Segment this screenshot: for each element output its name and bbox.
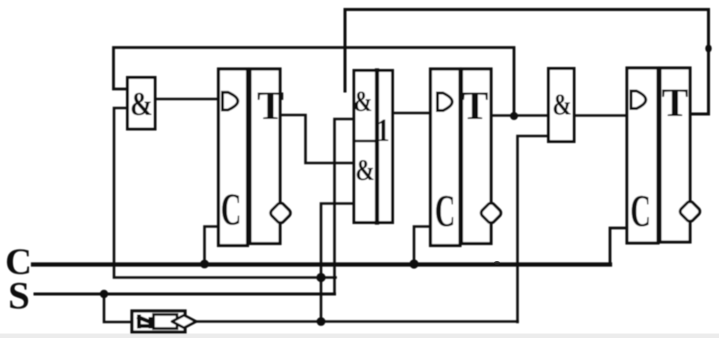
- D1 arrow diamond tip: [172, 315, 196, 328]
- D1 arrow body: [154, 315, 178, 329]
- svg-text:T: T: [662, 80, 689, 125]
- U2 output diamond: [480, 202, 503, 225]
- wire: T2 feedback line y=47 from x=514 to AND G1 input 1: [114, 48, 515, 117]
- node: small scan blob on C line: [494, 261, 500, 265]
- node: junction dot C line / FF2 clock: [409, 259, 418, 268]
- svg-text:T: T: [257, 83, 284, 128]
- D1 inner glyph: [139, 317, 151, 327]
- wire: S branch down to delay element input: [104, 294, 131, 322]
- U3 dynamic clock wedge: [631, 91, 646, 109]
- svg-text:1: 1: [376, 112, 389, 148]
- U1 dynamic clock wedge: [223, 92, 238, 110]
- scan artifact band at bottom: [0, 334, 719, 339]
- flip-flop U3 right section: [660, 68, 690, 242]
- node: junction dot on S line: [100, 290, 108, 298]
- wire: S riser x=334 to upper AND input of G2: [335, 119, 354, 294]
- svg-text:T: T: [462, 83, 489, 128]
- AND-OR gate G2 outer box: [354, 71, 393, 223]
- flip-flop U2 left section: [431, 69, 461, 246]
- wire: delay element output line y=322: [197, 320, 518, 323]
- wire: FF3 clock from C line end: [610, 228, 627, 263]
- node: junction dot y277/x321: [316, 273, 325, 282]
- wire: FF2 T output to AND G3 input 1: [491, 114, 548, 117]
- G2 column divider: [375, 71, 379, 223]
- wire: FF2 clock from C line: [414, 227, 430, 265]
- wire: G2 OR output to FF2 dynamic input: [394, 112, 430, 115]
- wire: AND G1 output to FF1 dynamic input: [155, 98, 218, 101]
- node: blob on right feedback vertical: [705, 45, 711, 53]
- U2 dynamic clock wedge: [438, 93, 453, 111]
- flip-flop U1 right section: [250, 69, 280, 244]
- U1 output diamond: [269, 202, 292, 225]
- flip-flop U2 right section: [462, 69, 492, 244]
- wire: FF1 clock from C line: [205, 227, 219, 265]
- flip-flop U3 left section: [627, 68, 658, 243]
- delay element D1 outer box: [132, 311, 185, 332]
- node: junction dot C line / FF1 clock: [200, 260, 209, 269]
- AND gate G1 (IEC symbol): [128, 78, 156, 130]
- wire: delay signal riser x=517.5 to AND G3 input 2: [518, 136, 549, 322]
- node: junction dot delay line / riser: [317, 317, 326, 326]
- svg-text:&: &: [552, 87, 571, 121]
- wire: AND G1 input 2 down and along y=277: [114, 108, 336, 278]
- svg-text:&: &: [355, 153, 374, 187]
- wire: S line: [35, 293, 335, 296]
- G2 cell divider: [354, 140, 377, 143]
- svg-text:S: S: [8, 275, 30, 318]
- svg-text:C: C: [630, 186, 651, 236]
- svg-text:&: &: [354, 84, 373, 118]
- node: junction dot at FF2 T output: [510, 112, 518, 120]
- AND gate G3: [549, 69, 575, 142]
- wire: delay riser x=321 to lower AND input of G2: [321, 204, 353, 322]
- wire: FF1 T output to lower AND input of G2: [280, 115, 353, 163]
- wire: top feedback from OR gate G2 input up over to FF3 T output: [345, 10, 709, 115]
- U3 output diamond: [679, 200, 702, 223]
- svg-text:C: C: [221, 185, 242, 235]
- svg-text:&: &: [130, 85, 153, 123]
- wire: AND G3 output to FF3 dynamic input: [574, 114, 627, 117]
- wire: C clock line: [33, 262, 610, 266]
- svg-text:C: C: [435, 186, 456, 236]
- flip-flop U1 left section: [219, 69, 248, 246]
